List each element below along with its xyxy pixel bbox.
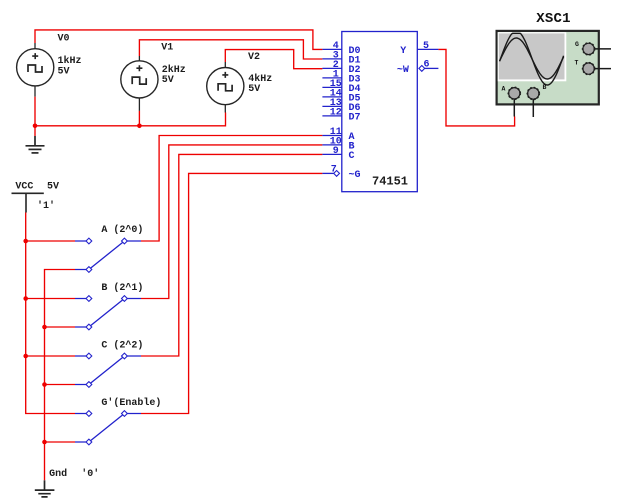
pin stub 7 with inversion diamond bbox=[322, 172, 333, 174]
svg-text:V0: V0 bbox=[58, 34, 70, 45]
svg-text:Y: Y bbox=[400, 46, 406, 57]
wire VCC bus to switch C top bbox=[26, 355, 75, 357]
ground symbol at bottom Gnd '0' bbox=[35, 468, 100, 497]
svg-text:~W: ~W bbox=[397, 65, 409, 76]
junction V1 bottom to bus bbox=[137, 124, 142, 129]
svg-text:~G: ~G bbox=[349, 170, 361, 181]
oscilloscope waveform channel B bbox=[500, 38, 564, 79]
multiplexer U1 74151 body bbox=[342, 32, 418, 192]
svg-text:12: 12 bbox=[330, 107, 342, 118]
svg-text:7: 7 bbox=[331, 164, 337, 175]
svg-text:9: 9 bbox=[333, 146, 339, 157]
pin stubs left D0-D7 and A,B,C bbox=[322, 49, 341, 154]
wire switch C common to pin 9 bbox=[141, 154, 322, 356]
wire VCC bus to switch B top bbox=[26, 298, 75, 300]
wire switch G common to pin 7 bbox=[141, 173, 322, 413]
svg-text:1kHz: 1kHz bbox=[58, 55, 82, 67]
lead from B terminal bbox=[532, 95, 534, 117]
wire VCC bus to switch A top bbox=[26, 240, 75, 242]
knob B bbox=[527, 88, 539, 100]
svg-text:74151: 74151 bbox=[372, 175, 408, 189]
junction ground bus at switch C bbox=[42, 382, 47, 387]
switch A (2^0) SPDT bbox=[75, 224, 143, 272]
ground symbol under source bus bbox=[26, 136, 45, 153]
svg-text:Gnd: Gnd bbox=[49, 468, 67, 480]
svg-text:C (2^2): C (2^2) bbox=[101, 340, 143, 352]
knob T bbox=[583, 63, 595, 75]
junction ground bus at switch G bbox=[42, 440, 47, 445]
switch G'(Enable) SPDT bbox=[75, 397, 161, 445]
switch C (2^2) SPDT bbox=[75, 340, 143, 388]
oscilloscope waveform channel A bbox=[500, 33, 564, 85]
wire ground bus vertical bbox=[45, 270, 76, 481]
wire ground bus to switch G bottom bbox=[45, 441, 76, 443]
svg-text:5V: 5V bbox=[248, 84, 260, 95]
junction VCC bus at switch B bbox=[23, 296, 28, 301]
wire V2 top to D2 (pin 2) bbox=[225, 50, 322, 69]
svg-text:5: 5 bbox=[423, 41, 429, 52]
svg-text:V1: V1 bbox=[161, 43, 173, 54]
svg-text:6: 6 bbox=[424, 60, 430, 71]
junction ground bus at switch B bbox=[42, 325, 47, 330]
svg-text:B (2^1): B (2^1) bbox=[101, 282, 143, 294]
wire V1 top to D1 (pin 3) bbox=[139, 40, 322, 59]
svg-text:4kHz: 4kHz bbox=[248, 73, 272, 85]
wire Y pin5 to scope channel A bbox=[438, 49, 514, 126]
oscilloscope screen bbox=[498, 32, 567, 81]
wire switch B common to pin 10 bbox=[141, 145, 322, 299]
svg-text:B: B bbox=[543, 84, 547, 91]
switch B (2^1) SPDT bbox=[75, 282, 143, 330]
svg-text:G: G bbox=[575, 41, 579, 48]
voltage source V1 2kHz 5V bbox=[121, 43, 186, 111]
voltage source V2 4kHz 5V bbox=[207, 52, 273, 113]
svg-text:V2: V2 bbox=[248, 52, 260, 63]
svg-text:5V: 5V bbox=[58, 67, 70, 78]
svg-text:'1': '1' bbox=[37, 200, 55, 212]
svg-text:D7: D7 bbox=[349, 113, 361, 124]
wire V0 top to D0 (pin 4) bbox=[35, 30, 322, 50]
knob A bbox=[508, 87, 520, 99]
svg-text:5V: 5V bbox=[47, 181, 59, 192]
wire switch A common to pin 11 bbox=[141, 136, 322, 242]
svg-text:VCC: VCC bbox=[15, 181, 33, 192]
pin stub 5 right bbox=[417, 48, 438, 50]
svg-text:5V: 5V bbox=[162, 75, 174, 86]
wire VCC bus vertical bbox=[26, 213, 75, 414]
VCC 5V power symbol bbox=[12, 181, 60, 212]
lead from T terminal bbox=[590, 68, 611, 70]
knob G bbox=[583, 43, 595, 55]
svg-text:XSC1: XSC1 bbox=[536, 11, 570, 27]
wire bottom bus V0-V1-V2 to ground bbox=[35, 97, 226, 136]
svg-text:C: C bbox=[349, 151, 355, 162]
lead from G terminal bbox=[590, 48, 611, 50]
wire ground bus to switch C bottom bbox=[45, 384, 76, 386]
svg-text:A: A bbox=[502, 86, 506, 93]
junction VCC bus at switch A bbox=[23, 239, 28, 244]
oscilloscope XSC1 body bbox=[497, 31, 599, 105]
junction V0 bottom to bus bbox=[33, 124, 38, 129]
svg-text:A (2^0): A (2^0) bbox=[101, 224, 143, 236]
voltage source V0 1kHz 5V bbox=[17, 34, 82, 97]
lead from A terminal bbox=[513, 95, 515, 117]
svg-text:'0': '0' bbox=[81, 468, 99, 480]
pin stub 6 right with inversion diamond bbox=[419, 66, 425, 72]
junction VCC bus at switch C bbox=[23, 354, 28, 359]
svg-text:2kHz: 2kHz bbox=[162, 64, 186, 76]
svg-text:T: T bbox=[575, 60, 579, 67]
wire ground bus to switch B bottom bbox=[45, 326, 76, 328]
svg-text:G'(Enable): G'(Enable) bbox=[101, 397, 161, 409]
